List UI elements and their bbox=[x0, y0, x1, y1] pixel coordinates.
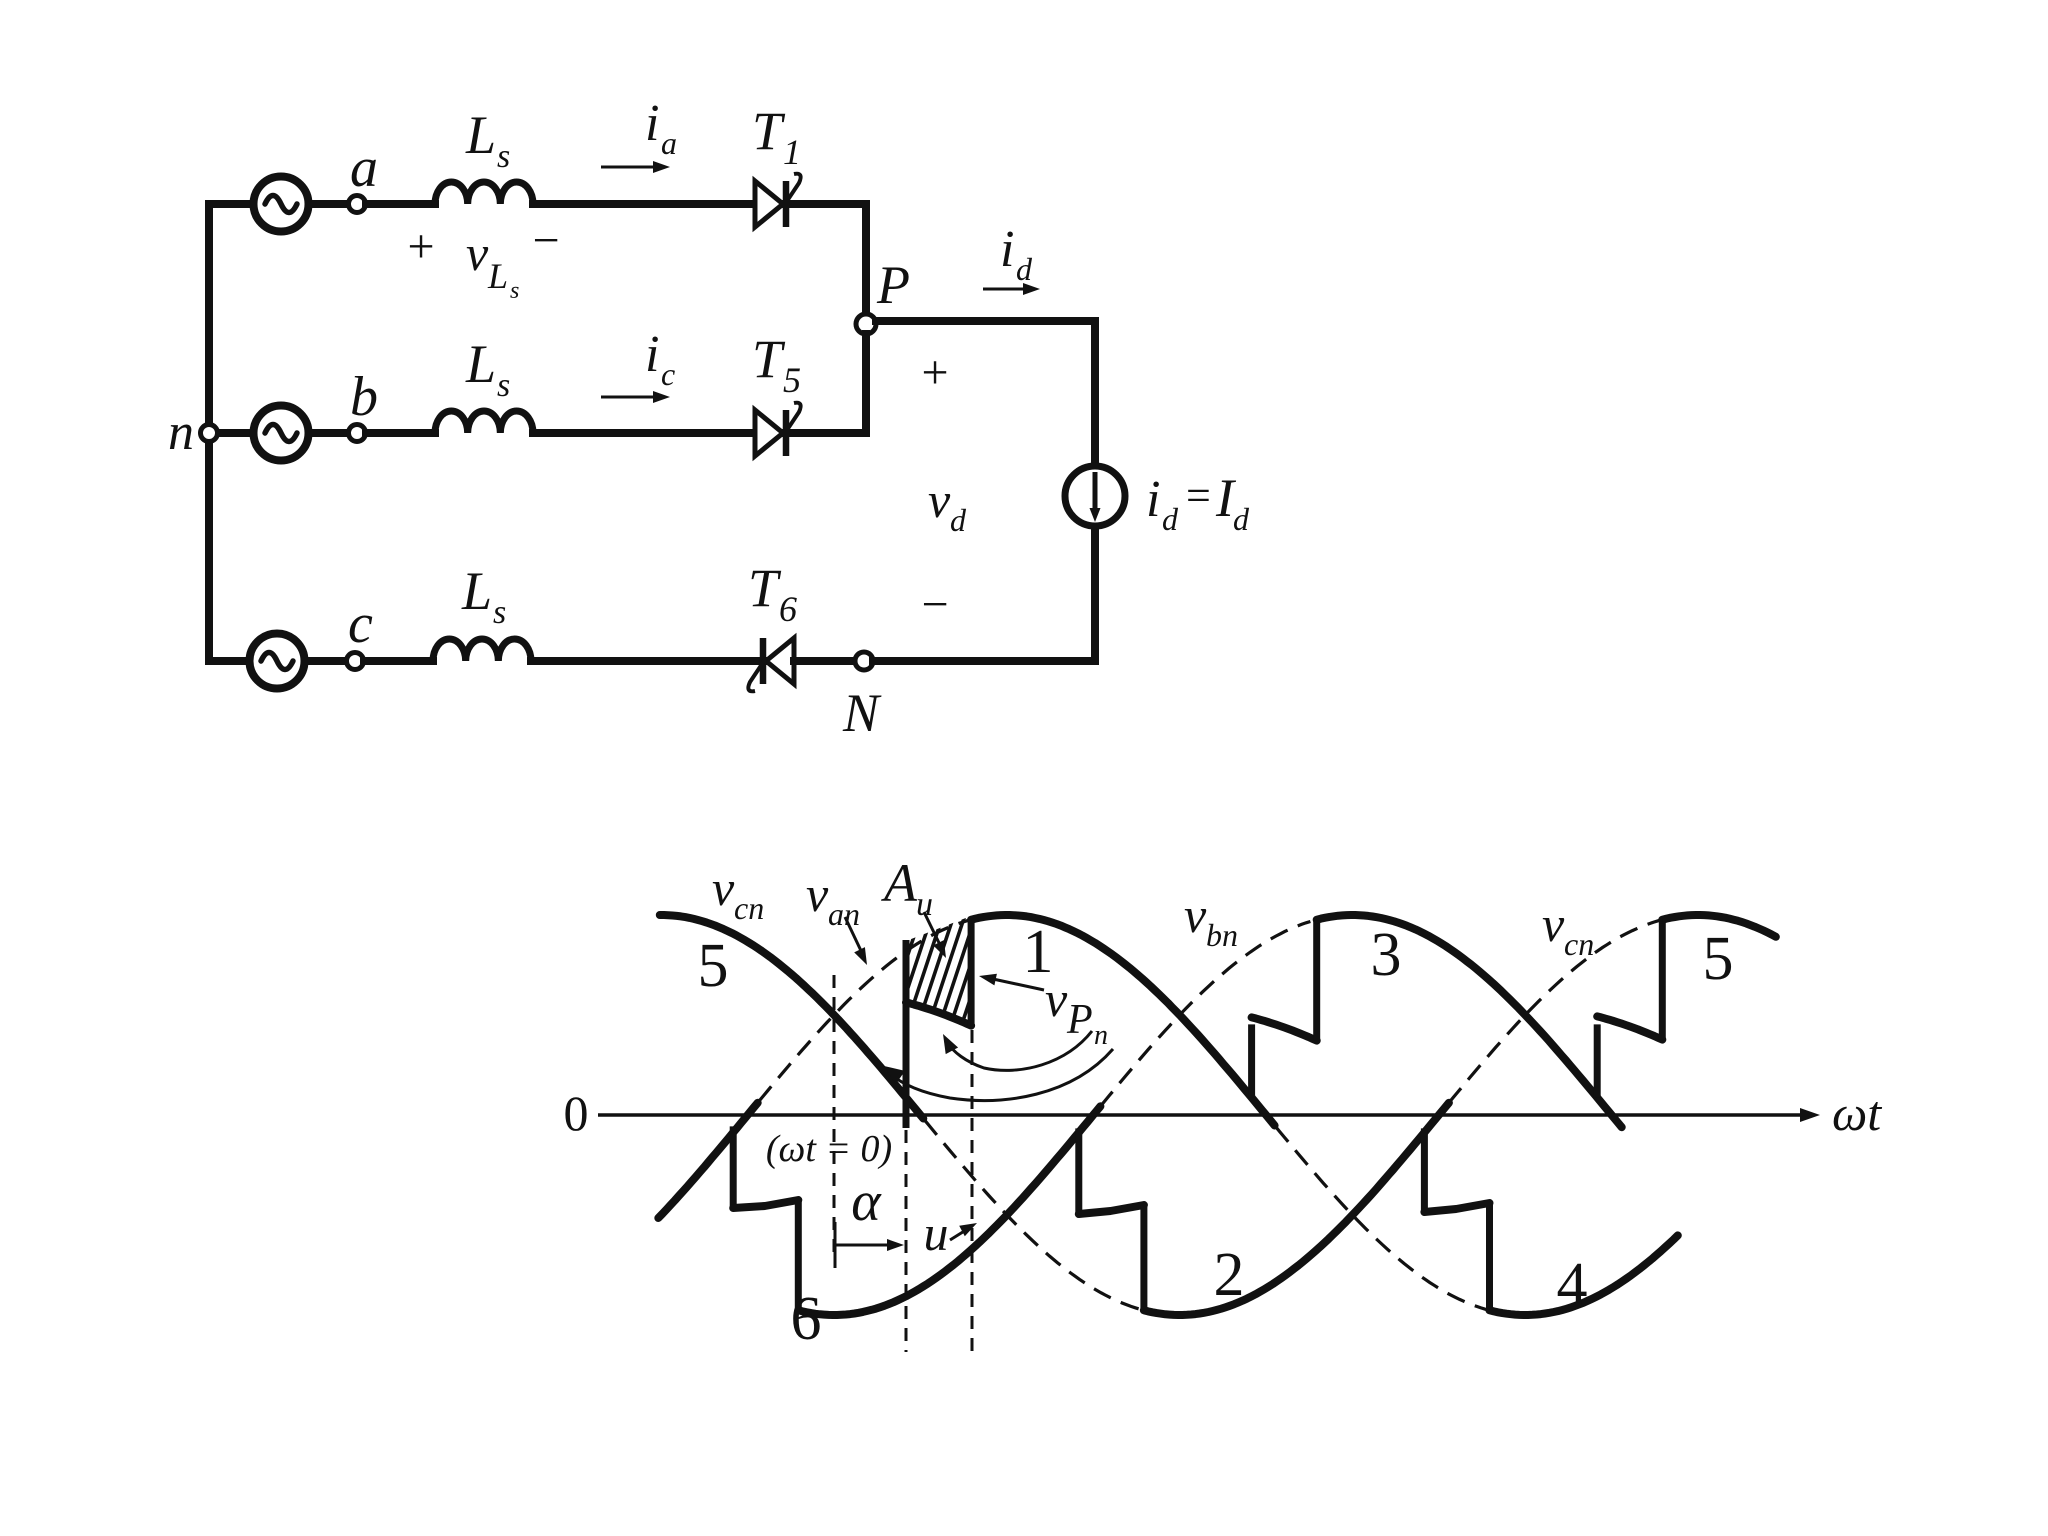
wire source b to node b bbox=[309, 429, 349, 437]
wire T5 to node P bbox=[786, 334, 866, 433]
thyristor T5 bbox=[755, 403, 801, 456]
svg-text:v: v bbox=[1542, 896, 1565, 952]
svg-text:s: s bbox=[497, 367, 510, 404]
svg-text:v: v bbox=[712, 860, 735, 916]
svg-text:6: 6 bbox=[791, 1285, 822, 1353]
label 5 left bbox=[698, 932, 729, 1000]
svg-text:b: b bbox=[350, 366, 378, 428]
u dimension arrow bbox=[950, 1223, 977, 1240]
wire T6 to node N bbox=[794, 657, 855, 665]
svg-text:5: 5 bbox=[1703, 925, 1734, 993]
alpha dimension arrow bbox=[835, 1222, 904, 1268]
label a bbox=[350, 137, 378, 199]
ac source phase c bbox=[250, 634, 305, 689]
label Ls phase a bbox=[465, 105, 510, 175]
label 0 at origin bbox=[564, 1085, 589, 1141]
label Ls phase b bbox=[465, 334, 510, 404]
dashed vertical line at firing instant alpha bbox=[905, 1130, 908, 1352]
label alpha bbox=[851, 1171, 882, 1233]
label 6 bbox=[791, 1285, 822, 1353]
curved arrow (inner) from v_Pn to midpoint curve bbox=[943, 1031, 1092, 1070]
v_an dashed sinusoid falling bbox=[1276, 1127, 1489, 1310]
svg-text:2: 2 bbox=[1214, 1241, 1245, 1309]
wire node c to inductor bbox=[364, 657, 433, 665]
svg-text:P: P bbox=[876, 255, 910, 315]
commutation jump at end of u up to v_an bbox=[968, 919, 975, 1027]
node n bbox=[201, 425, 218, 442]
commutation jump up to v_cn bbox=[1659, 920, 1666, 1040]
thyristor T1 bbox=[755, 174, 801, 227]
commutation jump at firing of T5 bbox=[1594, 1024, 1601, 1097]
negative commutation jump at firing of T2 bbox=[1075, 1128, 1082, 1214]
label + of v_Ls bbox=[407, 220, 434, 273]
waveform v_cn solid segment (thyristor 5 conducting, right) bbox=[1662, 915, 1776, 937]
current label i_a with arrow bbox=[601, 95, 677, 173]
svg-text:3: 3 bbox=[1371, 921, 1402, 989]
current label i_c with arrow bbox=[601, 326, 675, 403]
svg-text:−: − bbox=[532, 214, 559, 267]
svg-text:s: s bbox=[510, 278, 519, 304]
dashed vertical line at omega-t = 0 bbox=[833, 975, 836, 1256]
label T5 bbox=[752, 329, 801, 400]
wire node b to inductor bbox=[366, 429, 435, 437]
negative commutation jump at firing of T6 bbox=[730, 1126, 737, 1208]
label N bbox=[842, 683, 882, 743]
hatched commutation area A_u bbox=[856, 900, 1047, 1045]
svg-text:L: L bbox=[465, 334, 496, 394]
waveform v_an solid segment (thyristor 1 conducting) bbox=[971, 915, 1275, 1126]
negative commutation midpoint curve bbox=[733, 1200, 798, 1208]
svg-text:bn: bn bbox=[1206, 917, 1238, 953]
svg-text:L: L bbox=[465, 105, 496, 165]
label v_Pn bbox=[1045, 971, 1108, 1051]
svg-text:P: P bbox=[1066, 997, 1093, 1043]
label v_cn right bbox=[1542, 896, 1594, 962]
node c terminal bbox=[347, 653, 364, 670]
negative commutation jump at firing of T4 bbox=[1421, 1128, 1428, 1212]
negative commutation jump down to v_bn bbox=[795, 1200, 802, 1310]
wire inductor to thyristor T5 bbox=[533, 429, 755, 437]
svg-text:n: n bbox=[168, 404, 194, 461]
svg-text:c: c bbox=[348, 593, 373, 655]
wire node a to inductor bbox=[366, 200, 435, 208]
node P bbox=[856, 314, 876, 334]
commutation midpoint curve (v_an+v_bn)/2 bbox=[1252, 1017, 1317, 1040]
commutation midpoint curve (v_bn+v_cn)/2 bbox=[1597, 1016, 1662, 1039]
svg-text:v: v bbox=[806, 866, 829, 922]
commutation jump at firing of T1 (alpha) bbox=[903, 940, 910, 1128]
ac source phase b bbox=[254, 406, 309, 461]
label (omega-t = 0) bbox=[766, 1128, 892, 1170]
negative commutation jump down to v_an bbox=[1486, 1203, 1493, 1310]
svg-text:an: an bbox=[828, 896, 860, 932]
arrow from label A_u into hatched area bbox=[924, 912, 946, 958]
label v_d bbox=[928, 472, 967, 538]
svg-text:s: s bbox=[497, 138, 510, 175]
label T1 bbox=[752, 101, 801, 172]
svg-text:c: c bbox=[661, 356, 675, 392]
label 2 bbox=[1214, 1241, 1245, 1309]
label id = Id bbox=[1146, 468, 1250, 537]
svg-text:i: i bbox=[645, 326, 659, 383]
node b terminal bbox=[349, 425, 366, 442]
inductor Ls phase b bbox=[435, 411, 533, 433]
svg-text:cn: cn bbox=[1564, 926, 1594, 962]
svg-text:0: 0 bbox=[564, 1085, 589, 1141]
label v_bn bbox=[1184, 887, 1238, 953]
label 3 bbox=[1371, 921, 1402, 989]
waveform v_cn solid segment (thyristor 5 conducting, left) bbox=[660, 915, 924, 1119]
label T6 bbox=[748, 558, 797, 629]
svg-text:n: n bbox=[1094, 1020, 1108, 1051]
svg-text:s: s bbox=[493, 594, 506, 631]
time axis with arrow (omega-t) bbox=[598, 1108, 1820, 1122]
label 1 bbox=[1023, 918, 1054, 986]
svg-text:i: i bbox=[1000, 221, 1014, 278]
curved arrow (outer) from v_Pn to v_cn curve bbox=[884, 1049, 1113, 1100]
label omega-t at axis end bbox=[1832, 1085, 1882, 1141]
negative commutation midpoint curve bbox=[1424, 1203, 1489, 1212]
svg-text:v: v bbox=[928, 472, 951, 528]
svg-text:α: α bbox=[851, 1171, 882, 1233]
wire source c to node c bbox=[305, 657, 347, 665]
svg-text:5: 5 bbox=[698, 932, 729, 1000]
wire phase a: rail to source bbox=[209, 200, 254, 208]
v_cn dashed sinusoid rising bbox=[1449, 920, 1662, 1103]
svg-text:a: a bbox=[350, 137, 378, 199]
label Ls phase c bbox=[461, 561, 506, 631]
label u bbox=[924, 1205, 949, 1261]
v_an dashed sinusoid bbox=[759, 920, 971, 1101]
svg-text:−: − bbox=[921, 578, 948, 631]
commutation jump up to v_bn bbox=[1313, 920, 1320, 1041]
svg-text:u: u bbox=[916, 886, 933, 923]
svg-text:L: L bbox=[461, 561, 492, 621]
label v_an bbox=[806, 866, 860, 932]
svg-text:=: = bbox=[1186, 471, 1211, 520]
svg-text:v: v bbox=[1184, 887, 1207, 943]
label 5 right bbox=[1703, 925, 1734, 993]
label - of v_d bbox=[921, 578, 948, 631]
svg-text:i: i bbox=[645, 95, 659, 152]
wire inductor to thyristor T1 bbox=[533, 200, 755, 208]
wire phase c: rail to source bbox=[209, 657, 250, 665]
svg-text:v: v bbox=[1045, 971, 1068, 1027]
v_bn dashed sinusoid rising bbox=[1100, 922, 1310, 1107]
commutation midpoint curve (v_an+v_cn)/2 during u bbox=[906, 1002, 971, 1025]
label n bbox=[168, 404, 194, 461]
svg-text:L: L bbox=[487, 256, 508, 296]
svg-text:d: d bbox=[1016, 251, 1033, 287]
svg-text:d: d bbox=[1162, 501, 1179, 537]
ac source phase a bbox=[254, 177, 309, 232]
svg-text:T: T bbox=[752, 101, 786, 161]
node a terminal bbox=[349, 196, 366, 213]
svg-text:N: N bbox=[842, 683, 882, 743]
wire phase b: rail to source bbox=[209, 429, 254, 437]
svg-text:v: v bbox=[466, 225, 489, 281]
v_cn dashed sinusoid falling bbox=[925, 1120, 1144, 1310]
label P bbox=[876, 255, 910, 315]
wire source a to node a bbox=[309, 200, 349, 208]
svg-text:6: 6 bbox=[779, 589, 797, 629]
svg-text:5: 5 bbox=[783, 360, 801, 400]
negative envelope v_an solid segment (thyristor 4 conducting) bbox=[1490, 1235, 1678, 1315]
svg-text:ωt: ωt bbox=[1832, 1085, 1882, 1141]
dc current source id=Id bbox=[1065, 466, 1125, 526]
svg-text:cn: cn bbox=[734, 890, 764, 926]
arrow from label v_an to dashed curve bbox=[845, 917, 867, 965]
label - of v_Ls bbox=[532, 214, 559, 267]
wire node P to current source branch bbox=[876, 321, 1095, 466]
negative envelope v_cn solid segment (thyristor 2 conducting) bbox=[1144, 1103, 1449, 1315]
label c bbox=[348, 593, 373, 655]
svg-text:a: a bbox=[661, 125, 677, 161]
svg-text:i: i bbox=[1146, 471, 1160, 528]
svg-text:1: 1 bbox=[783, 132, 801, 172]
svg-text:+: + bbox=[921, 346, 948, 399]
commutation jump at firing of T3 bbox=[1248, 1024, 1255, 1097]
svg-text:d: d bbox=[1233, 501, 1250, 537]
negative envelope v_bn solid segment (thyristor 6 conducting) bbox=[798, 1106, 1100, 1315]
label b bbox=[350, 366, 378, 428]
waveform v_bn solid segment (thyristor 3 conducting) bbox=[1317, 915, 1622, 1127]
svg-text:T: T bbox=[748, 558, 782, 618]
label v_cn left bbox=[712, 860, 764, 926]
negative commutation midpoint curve bbox=[1079, 1205, 1144, 1214]
inductor Ls phase a bbox=[435, 182, 533, 204]
left rail wire from phase a to phase c bbox=[205, 204, 213, 661]
label 4 bbox=[1557, 1251, 1588, 1319]
wire node N to current source branch bbox=[873, 526, 1095, 661]
svg-text:+: + bbox=[407, 220, 434, 273]
svg-text:4: 4 bbox=[1557, 1251, 1588, 1319]
arrow from label v_Pn to commutation step bbox=[979, 974, 1044, 990]
label v_Ls bbox=[466, 225, 519, 304]
negative commutation jump down to v_cn bbox=[1140, 1205, 1147, 1310]
wire inductor to thyristor T6 bbox=[531, 657, 765, 665]
current label i_d with arrow bbox=[983, 221, 1040, 295]
dashed vertical line at end of commutation u bbox=[971, 1030, 974, 1352]
svg-text:u: u bbox=[924, 1205, 949, 1261]
label A_u bbox=[881, 853, 933, 923]
negative envelope v_an solid rising segment bbox=[658, 1103, 757, 1218]
thyristor T6 bbox=[748, 638, 794, 691]
svg-text:d: d bbox=[950, 502, 967, 538]
wire T1 to node P bbox=[786, 204, 866, 314]
label + of v_d bbox=[921, 346, 948, 399]
node N bbox=[855, 652, 873, 670]
svg-text:A: A bbox=[881, 853, 918, 913]
svg-text:(ωt = 0): (ωt = 0) bbox=[766, 1128, 892, 1170]
svg-text:T: T bbox=[752, 329, 786, 389]
inductor Ls phase c bbox=[433, 639, 531, 661]
